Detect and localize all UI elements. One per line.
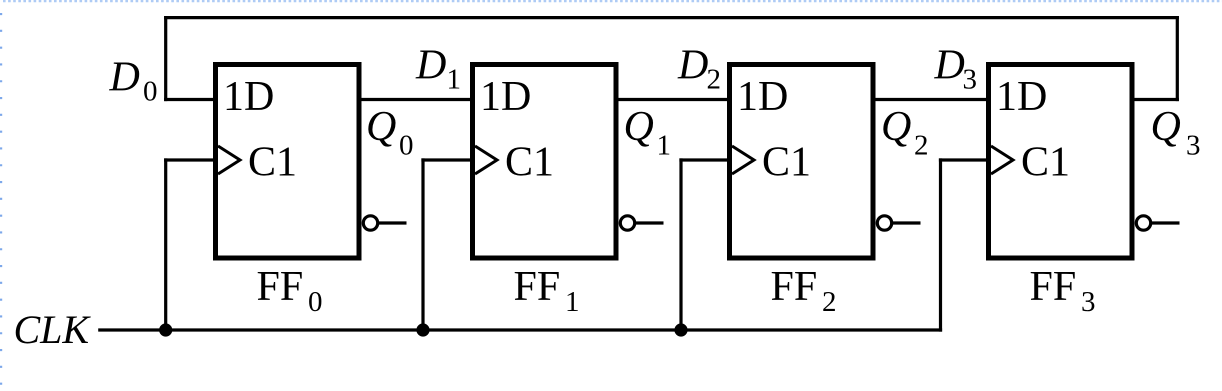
- FF1 clock wedge: [475, 146, 497, 174]
- flip-flop FF0 box: [216, 65, 360, 259]
- svg-text:D: D: [677, 43, 708, 89]
- flip-flop FF2 box: [730, 65, 874, 259]
- svg-text:Q: Q: [624, 104, 654, 150]
- wire clock riser FF1: [421, 158, 424, 330]
- FF1 inverted output bubble: [620, 216, 634, 230]
- svg-text:FF: FF: [771, 264, 818, 310]
- svg-text:D: D: [415, 43, 446, 89]
- svg-text:2: 2: [822, 286, 837, 318]
- wire clock riser FF3: [939, 158, 942, 331]
- svg-text:Q: Q: [366, 104, 396, 150]
- wire Q1 to D2: [618, 98, 728, 101]
- svg-text:3: 3: [963, 64, 978, 96]
- svg-text:0: 0: [308, 286, 323, 318]
- svg-text:0: 0: [399, 130, 414, 162]
- junction dot FF1 clock: [416, 323, 429, 336]
- svg-text:Q: Q: [881, 104, 911, 150]
- page edge dotted guide (left): [0, 13, 2, 391]
- wire feedback riser right: [1176, 16, 1179, 101]
- svg-text:C1: C1: [1021, 140, 1070, 186]
- svg-text:2: 2: [914, 130, 929, 162]
- wire Q3 output: [1134, 98, 1179, 101]
- wire D0 input: [164, 98, 214, 101]
- svg-text:FF: FF: [514, 264, 561, 310]
- FF0 inverted output stub wire: [379, 221, 407, 224]
- junction dot FF0 clock: [159, 323, 172, 336]
- svg-text:3: 3: [1186, 130, 1201, 162]
- svg-text:3: 3: [1081, 286, 1096, 318]
- wire clock riser FF0: [164, 158, 167, 330]
- svg-text:D: D: [934, 43, 965, 89]
- junction dot FF2 clock: [674, 323, 687, 336]
- svg-text:1D: 1D: [737, 74, 788, 120]
- wire feedback riser left: [164, 16, 167, 101]
- svg-text:1: 1: [657, 130, 672, 162]
- svg-text:C1: C1: [505, 140, 554, 186]
- svg-text:2: 2: [707, 64, 722, 96]
- svg-text:1D: 1D: [480, 74, 531, 120]
- svg-text:CLK: CLK: [14, 307, 92, 352]
- wire clock stub FF0: [164, 158, 214, 161]
- FF3 clock wedge: [991, 146, 1013, 174]
- svg-text:1: 1: [565, 286, 580, 318]
- wire CLK bus: [98, 328, 942, 331]
- svg-text:C1: C1: [248, 140, 297, 186]
- FF2 inverted output stub wire: [893, 221, 921, 224]
- FF3 inverted output bubble: [1136, 216, 1150, 230]
- FF1 inverted output stub wire: [636, 221, 664, 224]
- wire Q0 to D1: [361, 98, 471, 101]
- wire Q2 to D3: [875, 98, 987, 101]
- svg-text:0: 0: [143, 76, 158, 108]
- wire clock stub FF1: [421, 158, 471, 161]
- FF2 clock wedge: [732, 146, 754, 174]
- wire clock riser FF2: [679, 158, 682, 330]
- flip-flop FF1 box: [473, 65, 617, 259]
- flip-flop FF3 box: [989, 65, 1133, 259]
- wire clock stub FF3: [939, 158, 987, 161]
- wire feedback top: [164, 16, 1179, 19]
- svg-text:FF: FF: [1030, 264, 1077, 310]
- page edge dashed guide (top): [3, 0, 1222, 2]
- svg-text:C1: C1: [762, 140, 811, 186]
- svg-text:D: D: [109, 55, 140, 101]
- FF3 inverted output stub wire: [1152, 221, 1180, 224]
- FF0 inverted output bubble: [363, 216, 377, 230]
- FF2 inverted output bubble: [877, 216, 891, 230]
- svg-text:Q: Q: [1151, 104, 1181, 150]
- svg-text:1: 1: [447, 64, 462, 96]
- svg-text:1D: 1D: [223, 74, 274, 120]
- svg-text:1D: 1D: [996, 74, 1047, 120]
- wire clock stub FF2: [679, 158, 728, 161]
- svg-text:FF: FF: [257, 264, 304, 310]
- FF0 clock wedge: [218, 146, 240, 174]
